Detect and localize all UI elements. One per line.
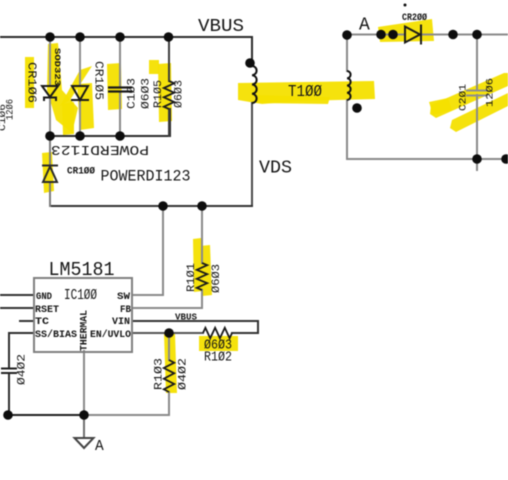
svg-text:R1Ø3: R1Ø3 <box>154 358 166 390</box>
node VDS/SW <box>158 201 168 211</box>
wire R103 branch <box>168 333 170 415</box>
svg-text:R1Ø1: R1Ø1 <box>186 263 198 292</box>
diode CR105 <box>71 86 89 100</box>
svg-text:VDS: VDS <box>259 159 292 179</box>
highlight over R103 wire and body <box>164 334 177 393</box>
svg-text:R1Ø2: R1Ø2 <box>204 350 232 366</box>
node VBUS/CR105 <box>75 32 85 42</box>
node rail136/CR106 <box>45 131 55 141</box>
capacitor C103 <box>108 88 132 92</box>
wire CR106 branch <box>49 37 51 136</box>
svg-text:POWERDI123: POWERDI123 <box>51 141 149 156</box>
node C201 top <box>472 30 482 40</box>
svg-text:RSET: RSET <box>35 304 59 316</box>
svg-text:SS/BIAS: SS/BIAS <box>35 329 77 341</box>
wire C201 branch <box>476 35 478 171</box>
highlight diagonal hook between diodes <box>60 66 92 106</box>
wire group1 bottom rail <box>50 109 170 136</box>
svg-text:CR2ØØ: CR2ØØ <box>402 12 427 24</box>
svg-text:SW: SW <box>117 291 131 303</box>
wire TC stub <box>20 320 34 322</box>
capacitor C? 0402 at SS/BIAS <box>1 369 17 374</box>
ground symbol A <box>75 438 94 448</box>
svg-text:EN/UVLO: EN/UVLO <box>90 329 131 341</box>
svg-text:VBUS: VBUS <box>175 312 197 323</box>
highlight stroke over CR106 diode <box>47 43 78 133</box>
highlight box over R102 value <box>199 336 238 351</box>
svg-text:CR1Ø6: CR1Ø6 <box>25 62 39 103</box>
highlight over CR106 label <box>25 57 34 108</box>
svg-text:A: A <box>359 16 370 36</box>
resistor R101 <box>197 263 207 290</box>
wire drop to primary <box>251 37 253 66</box>
svg-text:A: A <box>95 439 104 455</box>
svg-text:GND: GND <box>36 291 52 303</box>
wire SW net <box>132 206 163 295</box>
node bottom right edge <box>501 154 508 164</box>
wire CR100 branch <box>49 136 51 206</box>
svg-text:C1Ø3: C1Ø3 <box>127 78 139 109</box>
svg-text:LM5181: LM5181 <box>49 259 115 281</box>
wire ground stub <box>83 415 85 438</box>
node after CR200 <box>448 30 458 40</box>
svg-text:Ø4Ø2: Ø4Ø2 <box>178 358 190 390</box>
diode CR106 (Schottky) <box>42 86 58 101</box>
svg-text:C1Ø6: C1Ø6 <box>0 104 9 131</box>
node VDS/R101 <box>197 201 207 211</box>
node rail136/CR105 <box>75 131 85 141</box>
wire GND pin <box>0 294 34 296</box>
resistor R105 <box>164 81 174 109</box>
highlight notch left of R105 <box>149 60 159 74</box>
node gnd rail thermal <box>79 410 89 420</box>
wire THERMAL drop <box>83 351 85 415</box>
svg-text:Ø6Ø3: Ø6Ø3 <box>174 80 186 108</box>
wire VIN loop <box>132 321 258 333</box>
node C201 bottom <box>472 154 482 164</box>
svg-text:CR1Ø5: CR1Ø5 <box>92 61 106 100</box>
svg-text:Ø4Ø2: Ø4Ø2 <box>17 354 29 385</box>
svg-text:TC: TC <box>35 316 50 328</box>
diode CR100 <box>42 166 58 183</box>
svg-text:POWERDI123: POWERDI123 <box>101 168 191 186</box>
wire R101 top to VDS rail <box>201 206 203 263</box>
highlight tail below CR105 <box>62 102 74 135</box>
highlight over CR100 <box>42 152 54 193</box>
wire VBUS top rail <box>0 36 252 38</box>
wire bottom ground rail <box>8 414 84 416</box>
svg-text:VBUS: VBUS <box>198 16 244 37</box>
wire SS/BIAS to cap <box>9 333 34 415</box>
highlight over R105 <box>158 63 172 122</box>
svg-text:CR1ØØ: CR1ØØ <box>67 166 95 178</box>
highlight over R101 (two strokes) <box>193 238 203 292</box>
fleck above CR200 <box>404 4 407 7</box>
resistor R102 <box>203 328 232 338</box>
wire VDS rail <box>50 205 252 207</box>
wire secondary bottom <box>347 100 508 159</box>
svg-text:SOD323: SOD323 <box>52 48 62 86</box>
svg-text:T1ØØ: T1ØØ <box>288 82 322 101</box>
highlight over CR105 diode <box>77 83 94 130</box>
svg-text:THERMAL: THERMAL <box>79 310 91 351</box>
svg-text:12Ø6: 12Ø6 <box>485 78 497 107</box>
wire RSET pin <box>0 307 34 309</box>
capacitor C201 <box>466 91 488 96</box>
node before CR200 b <box>388 30 398 40</box>
transformer T100 secondary winding <box>347 71 351 100</box>
wire CR105 branch <box>79 37 81 136</box>
wire primary coil bottom to VDS rail <box>251 103 253 206</box>
node VBUS/CR106 <box>45 32 55 42</box>
node primary polarity dot <box>245 58 255 68</box>
wire R105 branch <box>168 37 170 136</box>
highlight band over C201 <box>430 73 508 118</box>
diode CR200 <box>405 25 421 45</box>
highlight over C103 <box>107 63 122 110</box>
node EN/R103 <box>164 328 174 338</box>
highlight band over transformer T100 <box>238 81 375 104</box>
wire FB net <box>132 290 202 308</box>
wire EN/UVLO row <box>132 332 203 334</box>
node before CR200 a <box>376 30 386 40</box>
node gnd rail left <box>3 410 13 420</box>
transformer T100 primary winding <box>252 66 257 103</box>
highlight over CR200 <box>378 19 434 42</box>
node VBUS/C103 <box>115 32 125 42</box>
svg-text:Ø6Ø3: Ø6Ø3 <box>211 264 223 293</box>
node VBUS/R105 <box>164 32 174 42</box>
svg-text:Ø6Ø3: Ø6Ø3 <box>141 78 153 109</box>
node rail136/C103 <box>115 131 125 141</box>
svg-text:FB: FB <box>120 304 132 316</box>
wire C103 branch <box>119 37 121 136</box>
svg-text:C2Ø1: C2Ø1 <box>458 84 470 111</box>
IC U100 body <box>34 278 132 352</box>
svg-text:IC1ØØ: IC1ØØ <box>64 287 97 304</box>
node secondary top corner <box>342 30 352 40</box>
resistor R103 <box>164 360 174 392</box>
svg-text:VIN: VIN <box>112 316 130 328</box>
wire secondary top <box>346 35 348 71</box>
node secondary polarity dot <box>352 103 362 113</box>
svg-text:R1Ø5: R1Ø5 <box>153 80 165 108</box>
